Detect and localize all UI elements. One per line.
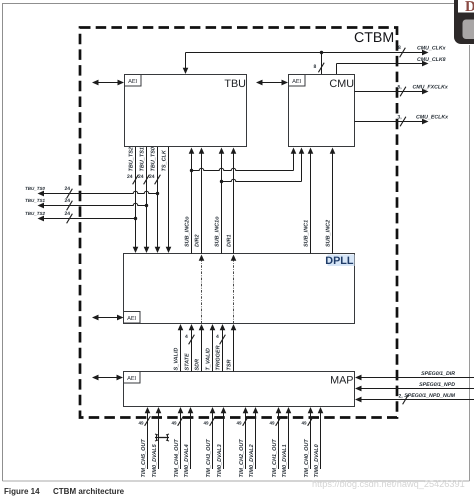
input TIM0_DVAL5 (bottom): [152, 407, 162, 478]
wire STATE MAP to DPLL: [184, 324, 194, 372]
svg-text:TBU_TS2: TBU_TS2: [25, 211, 45, 216]
input TIM0_DVAL4 (bottom): [184, 407, 194, 478]
svg-text:SUB_INC1: SUB_INC1: [303, 220, 309, 247]
svg-text:TBU_TS2: TBU_TS2: [128, 147, 134, 171]
svg-text:TBU_TS0: TBU_TS0: [25, 186, 45, 191]
input SPEGx_NPD: [355, 382, 474, 392]
svg-text:TIM0_DVAL0: TIM0_DVAL0: [314, 444, 320, 478]
svg-text:TBU_TS0: TBU_TS0: [150, 147, 156, 172]
svg-text:AEI: AEI: [127, 376, 136, 382]
wire AEI bus to MAP (double arrow): [92, 375, 123, 381]
svg-text:24: 24: [65, 186, 71, 192]
svg-text:SPEG0/1_NPD: SPEG0/1_NPD: [419, 382, 455, 388]
output CMU_CLKx: [322, 45, 447, 57]
wire CMU clock trunk to TBU (node): [183, 51, 324, 74]
svg-text:DL: DL: [465, 0, 474, 15]
svg-text:8: 8: [314, 64, 317, 70]
input TIM_CH5_OUT (bottom): [139, 407, 151, 478]
wire T_VALID MAP to DPLL: [205, 324, 215, 372]
input TIM_CH4_OUT (bottom): [172, 407, 184, 478]
svg-text:SUB_INC2: SUB_INC2: [325, 220, 331, 247]
wire AEI bus to DPLL (double arrow): [92, 315, 124, 321]
svg-text:49: 49: [237, 421, 242, 426]
wire SUB_INC2 DPLL to CMU: [325, 148, 335, 254]
svg-text:TS_CLK: TS_CLK: [161, 150, 167, 172]
output CMU_FXCLKx: [355, 84, 449, 96]
svg-text:4: 4: [185, 334, 188, 340]
wire S_VALID MAP to DPLL: [173, 324, 183, 372]
svg-text:4: 4: [216, 334, 219, 340]
svg-text:TBU_TS1: TBU_TS1: [25, 198, 45, 203]
tick mark on TIM0_DVAL5: [155, 434, 169, 441]
input TIM0_DVAL1 (bottom): [282, 407, 292, 478]
svg-text:TIM0_DVAL3: TIM0_DVAL3: [217, 444, 223, 477]
svg-text:STATE: STATE: [184, 353, 190, 371]
svg-text:AEI: AEI: [292, 79, 301, 85]
svg-text:TIM_CH3_OUT: TIM_CH3_OUT: [206, 439, 212, 478]
svg-text:TIM0_DVAL1: TIM0_DVAL1: [282, 444, 288, 477]
wire TBU_TS2 bus TBU to DPLL: [127, 147, 138, 253]
svg-text:SPEG0/1_DIR: SPEG0/1_DIR: [421, 371, 455, 377]
svg-text:TRIGGER: TRIGGER: [215, 345, 221, 370]
wire TBU_TS1 bus TBU to DPLL: [138, 147, 149, 253]
svg-text:CMU_ECLKx: CMU_ECLKx: [416, 114, 449, 120]
wire SUB_INC1o DPLL to TBU: [214, 148, 224, 254]
input SPEGx_DIR: [355, 371, 474, 381]
input TIM_CH0_OUT (bottom): [302, 407, 314, 478]
svg-text:49: 49: [270, 421, 275, 426]
port AEI (TBU): [125, 75, 142, 87]
wire TBU to CMU AEI (double arrow): [256, 80, 288, 86]
block CMU: [289, 75, 355, 147]
svg-text:AEI: AEI: [127, 316, 136, 322]
svg-text:49: 49: [172, 421, 177, 426]
block TBU: [125, 75, 247, 147]
wire DIR2 DPLL to TBU: [194, 148, 204, 254]
wire SDR feed-through inside DPLL (dash-dot): [199, 255, 205, 324]
label CTBM: [354, 30, 394, 46]
svg-text:CTBM: CTBM: [354, 30, 394, 46]
wire AEI bus to TBU (double arrow): [92, 80, 124, 86]
output CMU_ECLKx: [355, 114, 449, 126]
svg-text:MAP: MAP: [330, 375, 353, 387]
svg-text:SDR: SDR: [194, 359, 200, 371]
wire TSR feed-through inside DPLL (dash-dot): [231, 255, 237, 324]
input TIM_CH3_OUT (bottom): [204, 407, 216, 478]
wire SUB_INC2o DPLL to TBU: [184, 148, 194, 254]
svg-text:CMU_CLKx: CMU_CLKx: [417, 45, 446, 51]
svg-text:CMU_FXCLKx: CMU_FXCLKx: [413, 84, 449, 90]
wire SDR MAP to DPLL: [194, 324, 204, 372]
svg-text:24: 24: [127, 174, 133, 180]
svg-text:TIM0_DVAL2: TIM0_DVAL2: [249, 444, 255, 477]
wire TBU_TS0 bus TBU to DPLL: [149, 147, 160, 253]
svg-text:DIR1: DIR1: [226, 234, 232, 247]
output TBU_TS1 (left): [25, 198, 148, 210]
svg-text:TIM_CH2_OUT: TIM_CH2_OUT: [239, 439, 245, 478]
svg-text:24: 24: [65, 211, 71, 217]
svg-text:TBU: TBU: [224, 78, 246, 90]
svg-text:S_VALID: S_VALID: [173, 348, 179, 371]
overlay widget top-right: [454, 0, 474, 44]
svg-text:TIM_CH1_OUT: TIM_CH1_OUT: [272, 439, 278, 478]
port AEI (MAP): [124, 372, 141, 384]
output CMU_CLK8: [337, 57, 446, 75]
svg-text:5,: 5,: [398, 85, 402, 91]
svg-text:T_VALID: T_VALID: [205, 348, 211, 371]
port AEI (DPLL): [124, 312, 141, 324]
svg-text:3,: 3,: [398, 115, 402, 121]
svg-text:TIM_CH4_OUT: TIM_CH4_OUT: [174, 439, 180, 478]
svg-text:2,: 2,: [399, 394, 403, 400]
svg-text:49: 49: [302, 421, 307, 426]
input TIM0_DVAL3 (bottom): [217, 407, 227, 478]
wire TSR MAP to DPLL: [226, 324, 236, 372]
block DPLL: [124, 254, 355, 324]
CTBM boundary (dashed box): [80, 28, 397, 418]
input TIM0_DVAL0 (bottom): [314, 407, 324, 478]
input SPEGx_NPD_NUM: [355, 393, 474, 405]
svg-text:24: 24: [149, 174, 155, 180]
output TBU_TS2 (left): [25, 211, 137, 223]
svg-text:TBU_TS1: TBU_TS1: [139, 147, 145, 171]
svg-text:TSR: TSR: [226, 359, 232, 370]
svg-text:49: 49: [204, 421, 209, 426]
block MAP: [124, 372, 355, 407]
port AEI (CMU): [289, 75, 306, 87]
wire SUB_INC1o branch to CMU: [220, 148, 304, 184]
svg-text:TIM0_DVAL5: TIM0_DVAL5: [152, 444, 158, 478]
wire TRIGGER MAP to DPLL: [215, 324, 225, 372]
svg-text:SUB_INC1o: SUB_INC1o: [214, 216, 220, 247]
svg-text:49: 49: [139, 421, 144, 426]
svg-text:SUB_INC2o: SUB_INC2o: [184, 216, 190, 247]
svg-text:24: 24: [138, 174, 144, 180]
input TIM0_DVAL2 (bottom): [249, 407, 259, 478]
svg-text:AEI: AEI: [128, 79, 137, 85]
svg-text:SPEG0/1_NPD_NUM: SPEG0/1_NPD_NUM: [404, 393, 455, 399]
input TIM_CH1_OUT (bottom): [270, 407, 282, 478]
svg-text:DIR2: DIR2: [194, 234, 200, 247]
svg-text:DPLL: DPLL: [325, 255, 354, 267]
wire SUB_INC1 DPLL to CMU: [303, 148, 313, 254]
wire SUB_INC2o branch to CMU: [190, 148, 296, 173]
svg-text:TIM0_DVAL4: TIM0_DVAL4: [184, 444, 190, 477]
svg-text:CMU_CLK8: CMU_CLK8: [417, 57, 446, 63]
svg-text:8: 8: [398, 45, 401, 51]
wire DIR1 DPLL to TBU: [226, 148, 236, 254]
svg-text:TIM_CH0_OUT: TIM_CH0_OUT: [304, 439, 310, 478]
wire TS_CLK bus TBU to DPLL: [161, 147, 171, 253]
output TBU_TS0 (left): [25, 186, 159, 198]
svg-text:24: 24: [65, 198, 71, 204]
svg-text:CMU: CMU: [329, 78, 354, 90]
svg-text:TIM_CH5_OUT: TIM_CH5_OUT: [141, 439, 147, 478]
input TIM_CH2_OUT (bottom): [237, 407, 249, 478]
